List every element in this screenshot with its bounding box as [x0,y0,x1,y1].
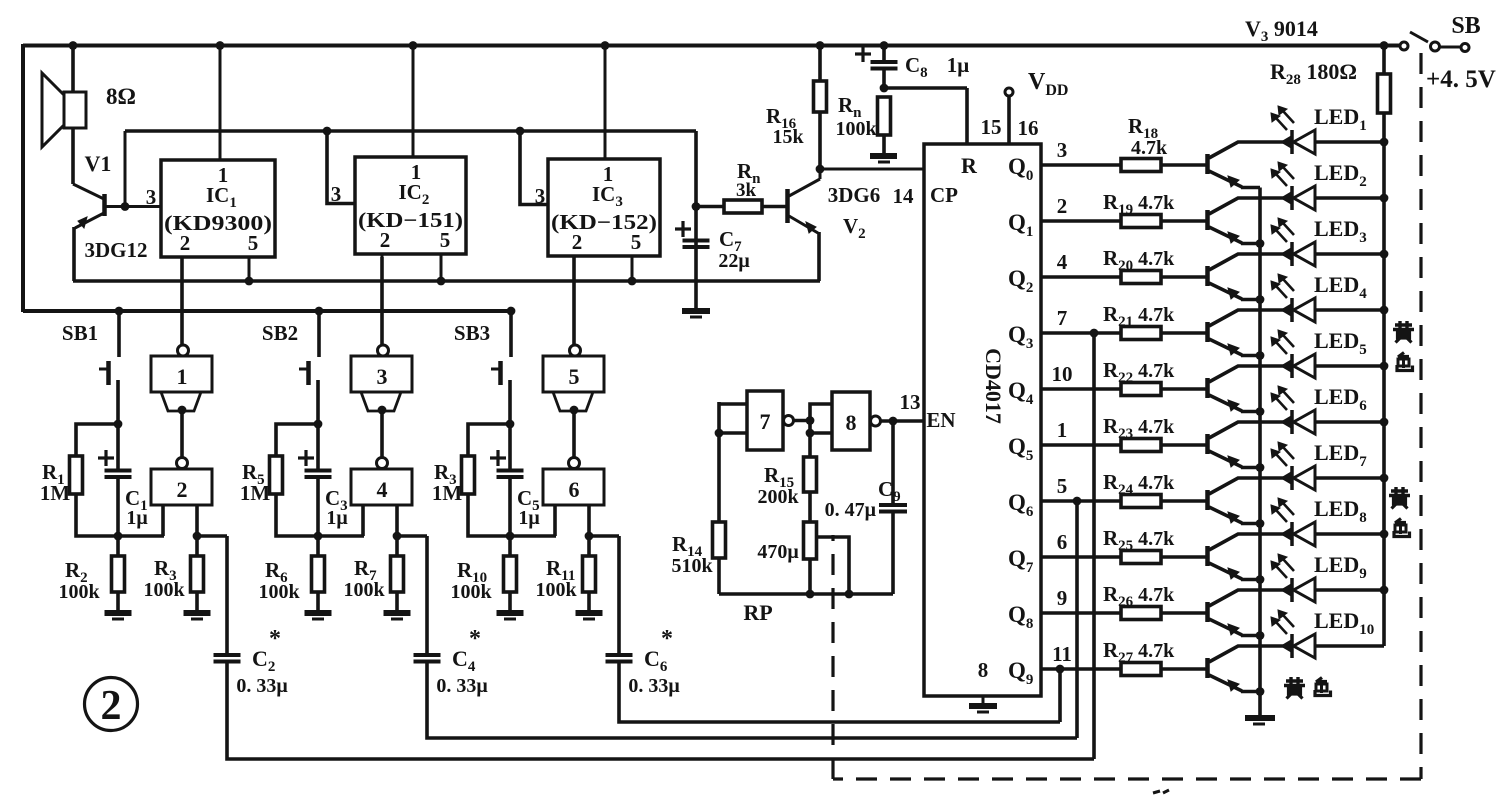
svg-text:CP: CP [930,183,958,207]
svg-text:2: 2 [177,477,188,502]
svg-text:7: 7 [1057,306,1068,330]
svg-text:R22 4.7k: R22 4.7k [1103,358,1175,386]
svg-text:2: 2 [101,683,122,729]
svg-text:510k: 510k [671,555,713,577]
svg-text:V3 9014: V3 9014 [1245,16,1318,45]
svg-text:RP: RP [743,600,772,625]
svg-text:1μ: 1μ [126,507,148,529]
svg-text:13: 13 [900,390,921,414]
svg-text:100k: 100k [258,581,300,603]
svg-text:1M: 1M [240,481,271,505]
svg-text:*: * [269,626,281,652]
svg-text:R27 4.7k: R27 4.7k [1103,638,1175,666]
svg-text:1: 1 [1057,418,1068,442]
svg-text:8: 8 [978,658,989,682]
svg-text:CD4017: CD4017 [981,348,1006,424]
svg-text:15k: 15k [772,126,804,148]
svg-text:R24 4.7k: R24 4.7k [1103,470,1175,498]
svg-text:1M: 1M [40,481,71,505]
svg-text:1M: 1M [432,481,463,505]
svg-text:3k: 3k [736,180,757,201]
svg-text:*: * [469,626,481,652]
svg-text:4.7k: 4.7k [1131,137,1168,159]
svg-text:R20 4.7k: R20 4.7k [1103,246,1175,274]
svg-text:9: 9 [1057,586,1068,610]
svg-text:2: 2 [180,231,191,255]
svg-text:6: 6 [1057,530,1068,554]
svg-text:8Ω: 8Ω [106,84,136,109]
svg-text:R21 4.7k: R21 4.7k [1103,302,1175,330]
svg-text:1μ: 1μ [947,53,970,77]
svg-text:470μ: 470μ [757,541,799,563]
svg-text:0. 47μ: 0. 47μ [825,499,877,521]
svg-text:8: 8 [846,410,857,435]
svg-text:0. 33μ: 0. 33μ [436,675,488,697]
svg-text:11: 11 [1052,642,1072,666]
svg-text:16: 16 [1018,116,1039,140]
svg-text:1μ: 1μ [518,507,540,529]
svg-text:SB3: SB3 [454,321,490,345]
svg-text:200k: 200k [757,486,799,508]
svg-text:5: 5 [1057,474,1068,498]
svg-text:1μ: 1μ [326,507,348,529]
svg-text:*: * [661,626,673,652]
svg-text:5: 5 [569,364,580,389]
svg-text:100k: 100k [450,581,492,603]
svg-text:5: 5 [440,228,451,252]
svg-text:22μ: 22μ [718,250,750,272]
svg-text:V1: V1 [85,151,112,176]
svg-text:SB2: SB2 [262,321,298,345]
svg-text:100k: 100k [143,579,185,601]
svg-text:7: 7 [760,409,771,434]
svg-text:R25 4.7k: R25 4.7k [1103,526,1175,554]
svg-text:3DG6: 3DG6 [828,183,881,207]
svg-text:3: 3 [1057,138,1068,162]
svg-text:3DG12: 3DG12 [85,238,148,262]
svg-text:R28 180Ω: R28 180Ω [1270,59,1357,88]
svg-text:2: 2 [1057,194,1068,218]
svg-text:100k: 100k [343,579,385,601]
svg-text:EN: EN [926,408,955,432]
svg-text:100k: 100k [58,581,100,603]
svg-text:2: 2 [572,230,583,254]
svg-text:3: 3 [146,185,157,209]
svg-text:5: 5 [248,231,259,255]
svg-text:0. 33μ: 0. 33μ [628,675,680,697]
svg-text:4: 4 [1057,250,1068,274]
svg-text:R: R [961,153,978,178]
svg-text:100k: 100k [535,579,577,601]
svg-text:6: 6 [569,477,580,502]
svg-text:0. 33μ: 0. 33μ [236,675,288,697]
svg-text:5: 5 [631,230,642,254]
svg-text:1: 1 [177,364,188,389]
svg-text:4: 4 [377,477,388,502]
svg-text:SB: SB [1451,13,1480,39]
svg-text:10: 10 [1052,362,1073,386]
svg-text:15: 15 [981,115,1002,139]
svg-text:R19 4.7k: R19 4.7k [1103,190,1175,218]
svg-text:+4. 5V: +4. 5V [1426,66,1496,93]
svg-text:14: 14 [893,184,915,208]
svg-text:R23 4.7k: R23 4.7k [1103,414,1175,442]
svg-text:2: 2 [380,228,391,252]
svg-text:100k: 100k [835,118,877,140]
svg-text:R26 4.7k: R26 4.7k [1103,582,1175,610]
svg-text:3: 3 [377,364,388,389]
svg-text:SB1: SB1 [62,321,98,345]
